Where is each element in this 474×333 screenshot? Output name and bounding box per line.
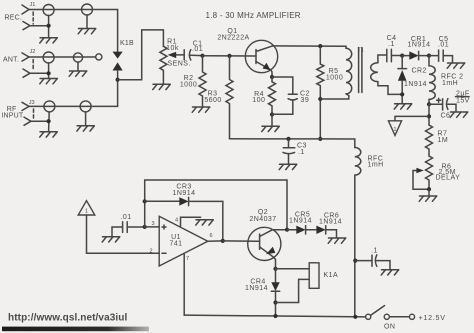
- wire J2 signal to relay contact: [29, 56, 95, 58]
- svg-text:J2: J2: [30, 49, 36, 55]
- capacitor C5 plates: [429, 50, 443, 61]
- ground after CR6: [328, 238, 346, 243]
- switch throw circle: [384, 314, 389, 319]
- svg-text:1.8 - 30 MHz AMPLIFIER: 1.8 - 30 MHz AMPLIFIER: [206, 11, 301, 20]
- svg-text:1mH: 1mH: [442, 80, 458, 87]
- wire pin3 node up to feedback loop: [145, 180, 287, 230]
- diode CR4 (pointing down): [275, 269, 277, 283]
- connector J2 shield dashed line: [32, 60, 34, 72]
- junction op-amp output node: [221, 239, 225, 243]
- svg-text:5600: 5600: [204, 97, 221, 104]
- wire node to connection triangle 1: [395, 116, 429, 120]
- connector J2 top prong: [22, 53, 29, 61]
- wire C1 to base rail: [191, 54, 203, 56]
- svg-text:1000: 1000: [180, 82, 197, 89]
- wire stem J3 feedthrough 1: [48, 112, 51, 131]
- feedthrough capacitor on J3 line (2): [80, 101, 91, 112]
- svg-text:10k: 10k: [166, 45, 179, 52]
- junction R4 bottom: [270, 112, 274, 116]
- resistor R4 body: [269, 77, 276, 115]
- wire C6 to ground: [448, 104, 456, 111]
- svg-text:INPUT: INPUT: [1, 112, 24, 119]
- feedthrough capacitor on J1 line (1): [43, 5, 54, 16]
- ground under R2: [192, 107, 210, 112]
- junction CR1/C5/RFC2 node: [427, 54, 431, 58]
- wire Q2 emitter to K1A: [276, 268, 310, 270]
- ground at pin 4: [196, 220, 214, 225]
- svg-text:1000: 1000: [326, 75, 343, 82]
- junction J3 shield: [47, 119, 51, 123]
- pin 3 lead and label: [145, 226, 160, 228]
- op-amp U1 741 body: [159, 216, 208, 266]
- svg-text:1N914: 1N914: [319, 218, 342, 225]
- svg-text:1: 1: [85, 209, 88, 215]
- resistor R2 body: [199, 56, 206, 107]
- junction RFC line / .1 cap: [353, 259, 357, 263]
- svg-text:1M: 1M: [438, 137, 449, 144]
- svg-text:1mH: 1mH: [368, 162, 384, 169]
- wire R4 bottom to ground: [271, 115, 273, 127]
- junction rail / C3: [286, 137, 290, 141]
- wire RFC2 node down to R7: [428, 104, 430, 125]
- svg-text:4: 4: [175, 217, 178, 223]
- junction CR2 anode / T1 secondary / ground: [400, 92, 404, 96]
- wire triangle 1 to op-amp pin 2: [87, 215, 160, 253]
- junction CR3 tee: [143, 199, 147, 203]
- op-amp + input marker: [162, 225, 166, 229]
- svg-text:1N914: 1N914: [404, 81, 427, 88]
- ground under R6: [419, 196, 437, 201]
- wire stem J3 feedthrough 2: [85, 112, 87, 126]
- svg-text:2: 2: [150, 248, 153, 254]
- wire C2 bottom to R4 node: [272, 100, 293, 114]
- junction J1 shield: [47, 24, 51, 28]
- switch ON: pole circle: [366, 314, 371, 319]
- terminal circle +12.5V: [409, 314, 414, 319]
- junction bus / CR4: [273, 314, 277, 318]
- svg-text:1N914: 1N914: [408, 42, 431, 49]
- diode CR5: [287, 229, 296, 231]
- transistor Q1 collector lead: [256, 46, 273, 52]
- svg-text:J1: J1: [30, 2, 36, 8]
- wire J1 shield to ground node: [30, 25, 49, 27]
- wire bottom bias rail (R3/C3/R5/RFC): [230, 139, 355, 148]
- svg-text:CR2: CR2: [412, 68, 427, 75]
- R6 wiper arrow tied to bottom: [413, 171, 429, 190]
- resistor R7 body: [426, 125, 433, 156]
- svg-text:.01: .01: [192, 46, 203, 53]
- wire op-amp output to Q2 base: [223, 240, 260, 242]
- svg-text:K1B: K1B: [120, 40, 134, 47]
- svg-text:2N4037: 2N4037: [249, 216, 276, 223]
- connector J1 shield prong: [23, 22, 30, 30]
- relay K1B stationary contact circle: [96, 54, 102, 60]
- junction R6 bottom: [427, 187, 431, 191]
- wire J2 shield to ground node: [30, 72, 49, 74]
- op-amp - input marker: [162, 252, 166, 254]
- junction R5 / T1 primary bottom: [318, 97, 322, 101]
- wire C4 to CR2 node: [391, 55, 402, 57]
- ground under J2 feedthrough 1: [40, 79, 58, 84]
- switch lever: [371, 306, 385, 316]
- svg-text:15V: 15V: [456, 98, 470, 105]
- feedthrough capacitor on J3 line (1): [44, 101, 55, 112]
- inductor RFC2 body: [429, 56, 435, 105]
- junction pin 3 node: [143, 225, 147, 229]
- ground at .01: [102, 237, 120, 242]
- transformer T1 primary winding: [346, 48, 352, 94]
- ground under R4: [262, 126, 280, 131]
- ground under J3 feedthrough 1: [40, 132, 58, 137]
- capacitor C6 plates: [429, 99, 448, 110]
- svg-text:J3: J3: [29, 100, 35, 106]
- transformer T1 core: [359, 48, 362, 93]
- diode CR3: [145, 200, 180, 202]
- svg-text:ON: ON: [384, 323, 395, 330]
- svg-text:1: 1: [393, 127, 396, 133]
- svg-text:7: 7: [186, 256, 189, 262]
- svg-text:.1: .1: [388, 41, 395, 48]
- junction Q1 emitter node: [270, 75, 274, 79]
- capacitor C1 plates: [183, 50, 185, 60]
- resistor R3 body: [226, 56, 233, 139]
- junction J2 shield: [47, 71, 51, 75]
- relay K1B lower (pole) arrow: [113, 62, 123, 70]
- junction RFC2 / C6 node: [427, 102, 431, 106]
- connector J3 shield dashed line: [33, 109, 35, 120]
- svg-text:.1: .1: [371, 247, 378, 254]
- inductor RFC 1mH body: [355, 148, 361, 317]
- wire J3 shield to ground node: [31, 120, 49, 122]
- capacitor C3 plates: [283, 139, 295, 164]
- junction C4/CR1/CR2 node: [400, 54, 404, 58]
- connector J2 shield prong: [23, 69, 30, 77]
- wire stem J2 feedthrough 1: [48, 63, 50, 78]
- wire C5 to ground: [443, 56, 452, 63]
- relay coil K1A body: [309, 263, 319, 289]
- svg-text:C6: C6: [441, 113, 451, 120]
- bottom scan bar: [2, 327, 149, 332]
- connector J3 top prong: [22, 102, 29, 110]
- ground after C5: [447, 63, 465, 68]
- connection point triangle 1 (left, at op-amp): [78, 201, 95, 215]
- svg-text:.1: .1: [298, 149, 305, 156]
- wire switch to +12.5V terminal: [389, 316, 409, 318]
- connector J1 top prong: [22, 5, 29, 14]
- connection point triangle 1 (to op-amp input): [388, 121, 401, 136]
- transistor Q1 emitter lead with arrow: [256, 62, 272, 78]
- wire T1 secondary bottom to ground node: [378, 82, 402, 95]
- svg-text:SENS.: SENS.: [168, 60, 191, 67]
- capacitor C2 plates: [288, 93, 297, 95]
- wire stem J2 feedthrough 2: [77, 62, 79, 71]
- capacitor C4 plates: [387, 49, 392, 62]
- svg-text:1N914: 1N914: [173, 190, 196, 197]
- junction bus / RFC line: [353, 315, 357, 319]
- junction R7 / delay line node: [427, 114, 431, 118]
- wire .1 to ground: [377, 261, 390, 270]
- transistor Q2 base bar: [259, 234, 261, 249]
- wire Q1 emitter to C2: [272, 77, 293, 94]
- junction K1B pole node: [116, 78, 120, 82]
- svg-text:3: 3: [152, 221, 155, 227]
- svg-text:.01: .01: [438, 42, 449, 49]
- svg-text:DELAY: DELAY: [436, 175, 461, 182]
- wire T1 primary bottom to R5 node: [320, 94, 349, 99]
- svg-text:1N914: 1N914: [245, 285, 268, 292]
- capacitor .01 plates: [123, 222, 128, 233]
- ground under R1: [153, 84, 171, 89]
- junction Q2 collector / feedback: [285, 228, 289, 232]
- diode CR6: [316, 226, 325, 234]
- wire .01 to pin 3 node: [127, 226, 145, 228]
- transistor Q1 base bar: [255, 50, 257, 64]
- transistor Q2 body circle: [248, 227, 281, 260]
- transistor Q2 emitter lead with arrow: [260, 247, 276, 269]
- ground under J2 feedthrough 2: [69, 71, 87, 76]
- feedthrough capacitor on J2 line (2): [73, 53, 82, 62]
- svg-text:39: 39: [301, 97, 310, 104]
- feedthrough capacitor on J1 line (2): [82, 4, 93, 15]
- svg-text:K1A: K1A: [324, 272, 339, 279]
- junction base rail / R3: [227, 54, 231, 58]
- R1 wiper arrow: [175, 54, 184, 56]
- svg-text:741: 741: [169, 240, 182, 247]
- wire J1 signal to K1B contact: [29, 10, 118, 52]
- wire base rail: [203, 55, 256, 57]
- potentiometer R1 body: [160, 46, 167, 84]
- wire K1A return: [276, 279, 310, 302]
- svg-text:http://www.qsl.net/va3iul: http://www.qsl.net/va3iul: [8, 313, 127, 324]
- svg-text:100: 100: [252, 97, 265, 104]
- wire K1B pole stem: [117, 70, 119, 79]
- ground under CR2: [394, 104, 412, 109]
- svg-text:6: 6: [210, 233, 213, 239]
- connector J3 shield prong: [24, 117, 31, 125]
- svg-text:+12.5V: +12.5V: [419, 314, 446, 322]
- transistor Q1 body circle: [245, 40, 277, 72]
- wire bottom supply bus: [184, 315, 365, 317]
- wire pole node to R1 top: [118, 30, 164, 80]
- connector J1 shield dashed line: [32, 12, 34, 24]
- diode CR2 (cathode up): [401, 56, 403, 69]
- ground after .1: [381, 270, 399, 275]
- potentiometer R6 body: [426, 156, 433, 189]
- diode CR1: [402, 55, 409, 57]
- svg-text:2N2222A: 2N2222A: [217, 35, 249, 42]
- ground under J3 feedthrough 2: [77, 126, 95, 131]
- wire stem feedthrough 2: [86, 15, 88, 28]
- feedthrough capacitor on J2 line (1): [43, 52, 54, 63]
- ground after C6: [450, 112, 468, 117]
- wire J3 signal to relay pole: [29, 80, 118, 107]
- wire .01 left to ground: [112, 227, 122, 236]
- resistor R5 body: [317, 46, 324, 139]
- wire R6 to ground: [428, 189, 430, 195]
- ground under J1 feedthrough 2: [78, 29, 96, 34]
- ground under C3: [279, 164, 297, 169]
- junction collector / R5: [318, 44, 322, 48]
- svg-text:REC.: REC.: [5, 15, 23, 22]
- junction R5 bottom rail: [318, 137, 322, 141]
- transistor Q2 collector lead: [260, 230, 287, 237]
- svg-text:.01: .01: [120, 214, 131, 221]
- wire stem feedthrough 1: [48, 16, 50, 38]
- svg-text:1N914: 1N914: [289, 217, 312, 224]
- capacitor .1 plates: [355, 255, 377, 266]
- junction base rail / R2: [200, 54, 204, 58]
- svg-text:ANT.: ANT.: [3, 57, 19, 64]
- wire T1 secondary top to C4: [378, 55, 386, 63]
- ground under J1 feedthrough 1: [40, 38, 58, 43]
- transformer T1 secondary winding: [371, 63, 378, 82]
- wire collector rail: [273, 46, 347, 48]
- junction CR4 cathode / K1A return: [273, 300, 277, 304]
- relay K1B upper (normally-closed) arrow: [113, 52, 123, 59]
- junction Q2 emitter node: [273, 267, 277, 271]
